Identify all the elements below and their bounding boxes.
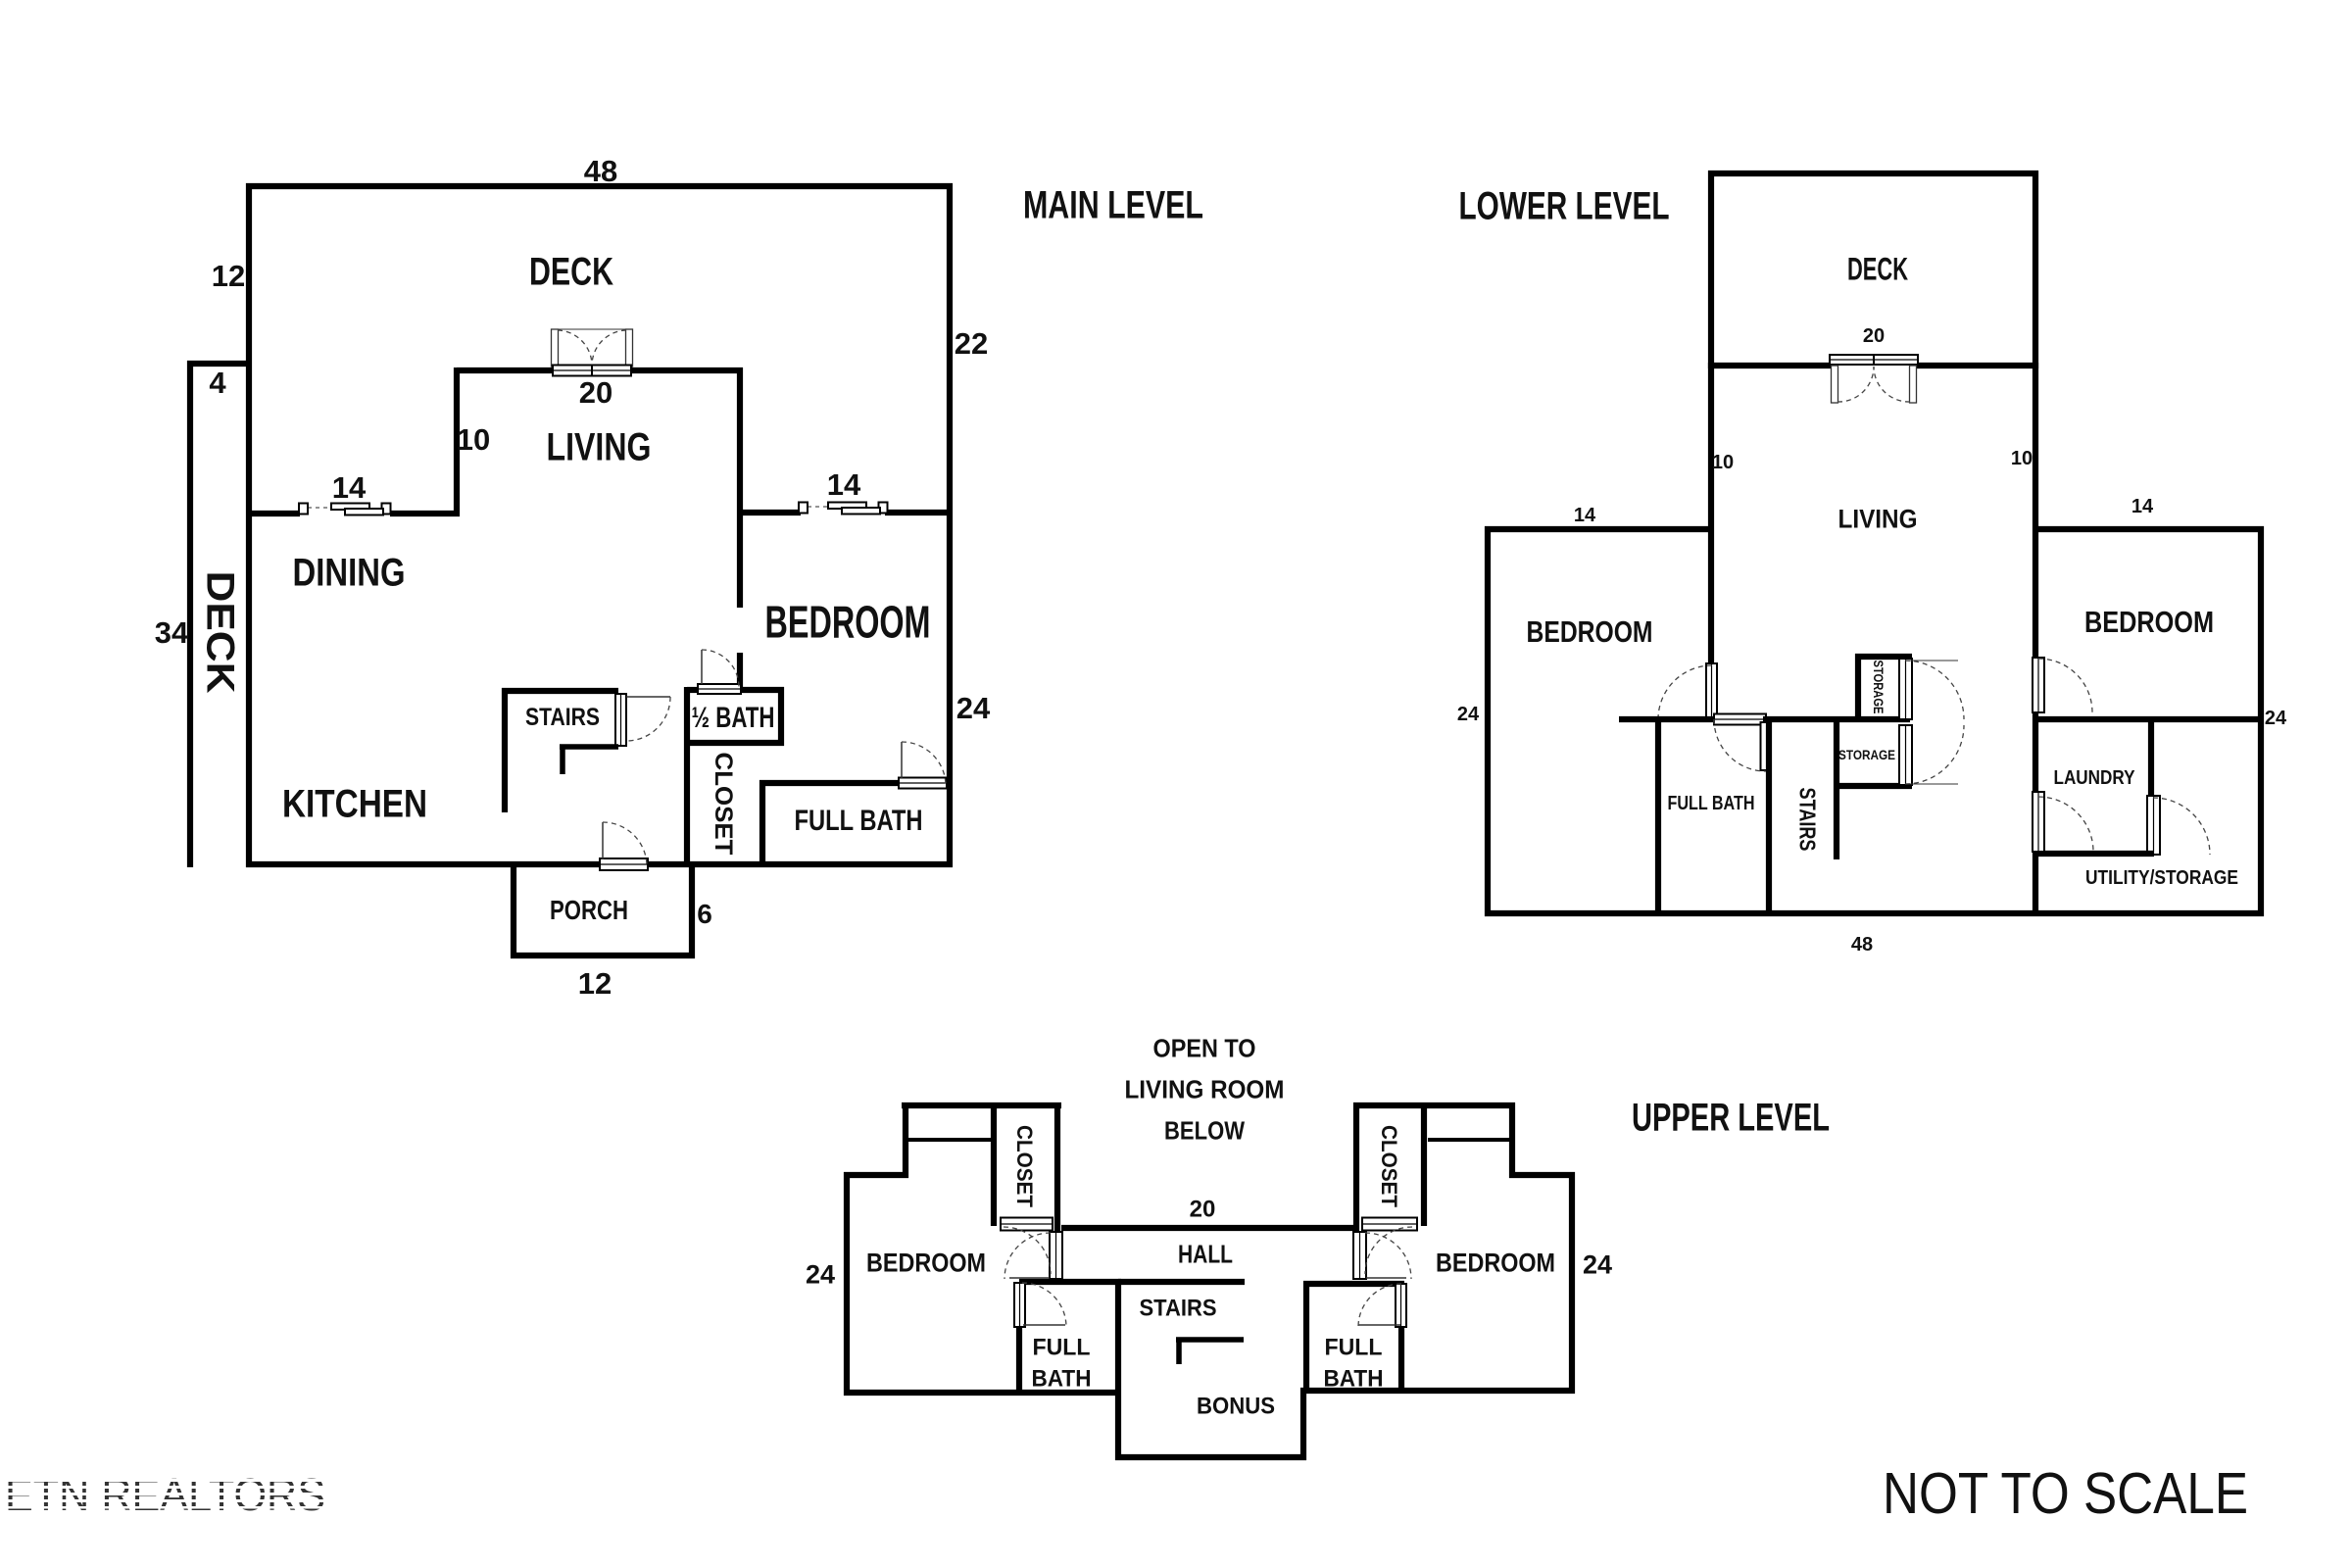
svg-text:FULL: FULL — [1033, 1335, 1091, 1361]
dining window wall left seg — [249, 511, 300, 516]
lower deck bottom wall segs — [1708, 363, 1834, 368]
deck strip top wall — [187, 361, 252, 367]
upper-right step horizontal — [1509, 1172, 1575, 1178]
svg-text:6: 6 — [697, 899, 712, 929]
svg-text:STAIRS: STAIRS — [525, 704, 600, 731]
svg-text:24: 24 — [2265, 708, 2287, 729]
porch bottom wall — [511, 953, 695, 958]
upper-left full bath left wall lower seg — [1016, 1327, 1022, 1396]
hall top wall (20) — [1061, 1225, 1356, 1231]
svg-text:BEDROOM: BEDROOM — [1436, 1249, 1555, 1278]
upper-left bottom wall — [844, 1390, 1121, 1396]
upper-left outer left wall — [844, 1172, 850, 1396]
svg-text:STORAGE: STORAGE — [1871, 661, 1886, 714]
upper-left top wall — [902, 1102, 1061, 1108]
upper-left hall door jamb — [1050, 1232, 1062, 1279]
lower-left bedroom left wall — [1485, 526, 1491, 916]
bedroom window wall right seg — [885, 510, 950, 515]
svg-text:10: 10 — [2011, 448, 2033, 469]
wall y734 right of full bath door — [1763, 716, 1910, 722]
french door leaves (main living to deck) — [552, 329, 559, 367]
lower living right wall — [2033, 363, 2038, 658]
wall y734 left of full bath door — [1619, 716, 1717, 722]
main outer wall bottom — [246, 861, 953, 867]
lower french door leaves + arcs — [1832, 366, 1838, 403]
half bath walls — [687, 687, 702, 693]
svg-text:FULL BATH: FULL BATH — [1668, 793, 1755, 814]
storage upper box top wall — [1855, 654, 1912, 660]
svg-text:OPEN TO: OPEN TO — [1153, 1033, 1256, 1062]
lower stairs inner wall — [1834, 722, 1839, 859]
svg-text:FULL: FULL — [1325, 1335, 1383, 1361]
svg-text:HALL: HALL — [1178, 1239, 1233, 1268]
svg-text:DECK: DECK — [1847, 252, 1908, 287]
full bath top wall — [759, 780, 901, 786]
upper bath/bedroom bottom wall right — [1300, 1388, 1575, 1394]
bonus right wall — [1300, 1388, 1306, 1460]
stairs inner L wall — [560, 744, 618, 750]
lower-right bedroom door jamb — [2033, 658, 2044, 712]
upper-right full bath door jamb — [1396, 1284, 1406, 1327]
svg-text:BEDROOM: BEDROOM — [1527, 614, 1653, 649]
storage lower bottom wall — [1834, 783, 1912, 789]
lower-left bedroom top wall — [1485, 526, 1714, 532]
svg-text:34: 34 — [155, 615, 189, 650]
half bath door sill — [698, 684, 741, 694]
lower deck right wall — [2033, 171, 2038, 368]
svg-text:20: 20 — [1190, 1197, 1216, 1223]
svg-text:48: 48 — [584, 154, 617, 188]
storage upper box left wall — [1855, 654, 1861, 722]
main outer wall top (deck) — [246, 183, 953, 189]
living left wall (10) — [454, 367, 460, 516]
deck strip left wall — [187, 361, 193, 867]
hall bottom wall right seg — [1118, 1279, 1245, 1285]
svg-text:CLOSET: CLOSET — [1012, 1125, 1037, 1208]
hall bottom wall left seg — [1019, 1279, 1121, 1285]
svg-text:NOT TO SCALE: NOT TO SCALE — [1883, 1461, 2248, 1526]
svg-text:LIVING: LIVING — [547, 425, 652, 468]
lower deck left wall — [1708, 171, 1714, 368]
lower living left wall — [1708, 363, 1714, 667]
dining window (14) — [308, 507, 333, 509]
svg-text:20: 20 — [1863, 325, 1885, 347]
svg-text:DECK: DECK — [199, 571, 242, 694]
upper-right closet door sill — [1362, 1218, 1417, 1231]
svg-text:FULL BATH: FULL BATH — [795, 805, 923, 837]
lower-right bedroom bottom wall — [2033, 716, 2264, 722]
svg-text:STAIRS: STAIRS — [1795, 788, 1821, 852]
svg-text:12: 12 — [212, 259, 245, 293]
upper-right closet left wall — [1353, 1102, 1359, 1232]
stairs left wall — [502, 688, 508, 812]
svg-text:BELOW: BELOW — [1164, 1115, 1245, 1145]
svg-text:BEDROOM: BEDROOM — [2084, 605, 2214, 639]
full bath door sill (lower) — [1714, 714, 1766, 725]
svg-text:14: 14 — [827, 467, 861, 502]
upper-left door leaf — [1009, 1277, 1050, 1279]
upper-right full bath right wall lower seg — [1398, 1327, 1404, 1394]
upper-right step vertical — [1509, 1102, 1515, 1178]
main outer wall right — [947, 183, 953, 867]
upper-left closet shelf line — [908, 1138, 991, 1142]
lower full bath right wall — [1766, 716, 1772, 916]
svg-text:½ BATH: ½ BATH — [692, 702, 775, 734]
upper-right full bath left wall — [1303, 1281, 1309, 1394]
upper-left closet door sill — [1001, 1218, 1053, 1231]
svg-text:20: 20 — [579, 375, 612, 410]
svg-text:LOWER LEVEL: LOWER LEVEL — [1459, 184, 1670, 227]
svg-text:BEDROOM: BEDROOM — [866, 1249, 986, 1278]
svg-text:24: 24 — [1457, 704, 1480, 725]
full bath door sill — [899, 778, 947, 789]
svg-text:48: 48 — [1851, 934, 1873, 955]
svg-text:12: 12 — [578, 966, 612, 1001]
porch door sill — [600, 858, 648, 870]
stairs door leaf + arc — [626, 696, 670, 698]
stairs left wall (upper) — [1115, 1279, 1121, 1460]
lower level bottom wall — [1485, 910, 2264, 916]
upper-right closet right wall — [1421, 1102, 1427, 1226]
half bath door leaf + arc — [701, 650, 703, 684]
upper-right outer right wall — [1569, 1172, 1575, 1394]
french door sill (20) — [553, 366, 631, 376]
bedroom wall stub above half bath — [737, 653, 743, 693]
lower deck top wall — [1708, 171, 2038, 176]
svg-text:24: 24 — [956, 691, 991, 725]
upper-right door leaf — [1366, 1277, 1406, 1279]
lower-left bedroom door jamb — [1706, 663, 1717, 719]
living top wall left seg — [457, 367, 555, 373]
living top wall right seg — [630, 367, 743, 373]
lower-right bedroom right wall — [2258, 526, 2264, 916]
living right wall lower segs — [2033, 712, 2038, 792]
bedroom window (14) — [808, 506, 830, 508]
french door arcs — [558, 330, 592, 366]
svg-text:UPPER LEVEL: UPPER LEVEL — [1632, 1096, 1830, 1139]
lower full bath left wall — [1655, 716, 1661, 916]
lower full bath door leaf + arc — [1761, 722, 1769, 770]
bonus bottom wall — [1115, 1454, 1306, 1460]
laundry-utility door jamb — [2147, 796, 2160, 855]
laundry entry door jamb — [2033, 792, 2044, 852]
upper-left crossing arcs — [1004, 1233, 1051, 1279]
svg-text:24: 24 — [806, 1260, 835, 1290]
closet / half-bath left wall — [684, 687, 690, 867]
svg-text:22: 22 — [955, 326, 988, 361]
svg-text:CLOSET: CLOSET — [710, 753, 737, 856]
upper-right closet shelf line — [1428, 1138, 1509, 1142]
svg-text:KITCHEN: KITCHEN — [282, 782, 427, 825]
upper-left step horizontal — [844, 1172, 908, 1178]
watermark stencil stripes — [0, 1479, 338, 1482]
stairs inner L (upper) — [1176, 1337, 1244, 1343]
porch right wall — [689, 864, 695, 958]
svg-text:UTILITY/STORAGE: UTILITY/STORAGE — [2085, 867, 2238, 889]
svg-text:4: 4 — [209, 366, 226, 400]
svg-text:LIVING: LIVING — [1838, 505, 1918, 534]
storage lower door jamb — [1899, 725, 1912, 785]
svg-text:BONUS: BONUS — [1197, 1394, 1275, 1420]
living right wall — [737, 367, 743, 608]
laundry bottom wall — [2033, 851, 2154, 857]
main outer wall left — [246, 183, 252, 867]
laundry right wall upper seg — [2148, 716, 2154, 796]
lower-right bedroom top wall — [2033, 526, 2264, 532]
svg-text:DINING: DINING — [293, 551, 406, 594]
stairs top wall — [502, 688, 618, 694]
svg-text:BATH: BATH — [1032, 1366, 1092, 1393]
upper-right full bath door leaf + arc — [1358, 1324, 1400, 1326]
svg-text:STAIRS: STAIRS — [1140, 1296, 1217, 1322]
svg-text:MAIN LEVEL: MAIN LEVEL — [1023, 183, 1203, 226]
svg-text:LIVING ROOM: LIVING ROOM — [1125, 1074, 1285, 1103]
svg-text:10: 10 — [1712, 452, 1734, 473]
lower french door sill — [1830, 355, 1918, 365]
svg-text:LAUNDRY: LAUNDRY — [2054, 767, 2136, 789]
svg-text:PORCH: PORCH — [550, 895, 628, 925]
full bath door leaf + arc — [901, 742, 903, 778]
svg-text:STORAGE: STORAGE — [1838, 747, 1895, 762]
upper-left step vertical — [903, 1102, 908, 1178]
full bath left wall — [759, 780, 765, 867]
stairs door jamb — [615, 694, 626, 746]
svg-text:CLOSET: CLOSET — [1377, 1125, 1401, 1208]
svg-text:14: 14 — [1574, 505, 1596, 526]
svg-text:10: 10 — [457, 422, 490, 457]
svg-text:BEDROOM: BEDROOM — [765, 597, 931, 648]
upper-left full bath door leaf + arc — [1023, 1324, 1065, 1326]
porch left wall — [511, 864, 516, 958]
upper-left closet right wall — [1054, 1102, 1060, 1232]
bedroom window wall left seg — [740, 510, 801, 515]
svg-text:24: 24 — [1583, 1250, 1612, 1280]
upper-right crossing arcs — [1365, 1233, 1411, 1279]
upper-right hall door jamb — [1353, 1232, 1366, 1279]
svg-text:14: 14 — [332, 470, 367, 505]
svg-text:BATH: BATH — [1324, 1366, 1384, 1393]
upper-right top wall — [1353, 1102, 1515, 1108]
svg-text:DECK: DECK — [529, 250, 613, 293]
upper-right full bath top wall — [1303, 1281, 1404, 1287]
upper-left full bath door jamb — [1014, 1283, 1025, 1327]
dining window wall right seg — [390, 511, 460, 516]
porch door leaf + arc — [602, 822, 604, 859]
storage upper door jamb — [1899, 659, 1912, 719]
svg-text:14: 14 — [2131, 496, 2154, 517]
upper-left closet left wall — [991, 1102, 997, 1226]
